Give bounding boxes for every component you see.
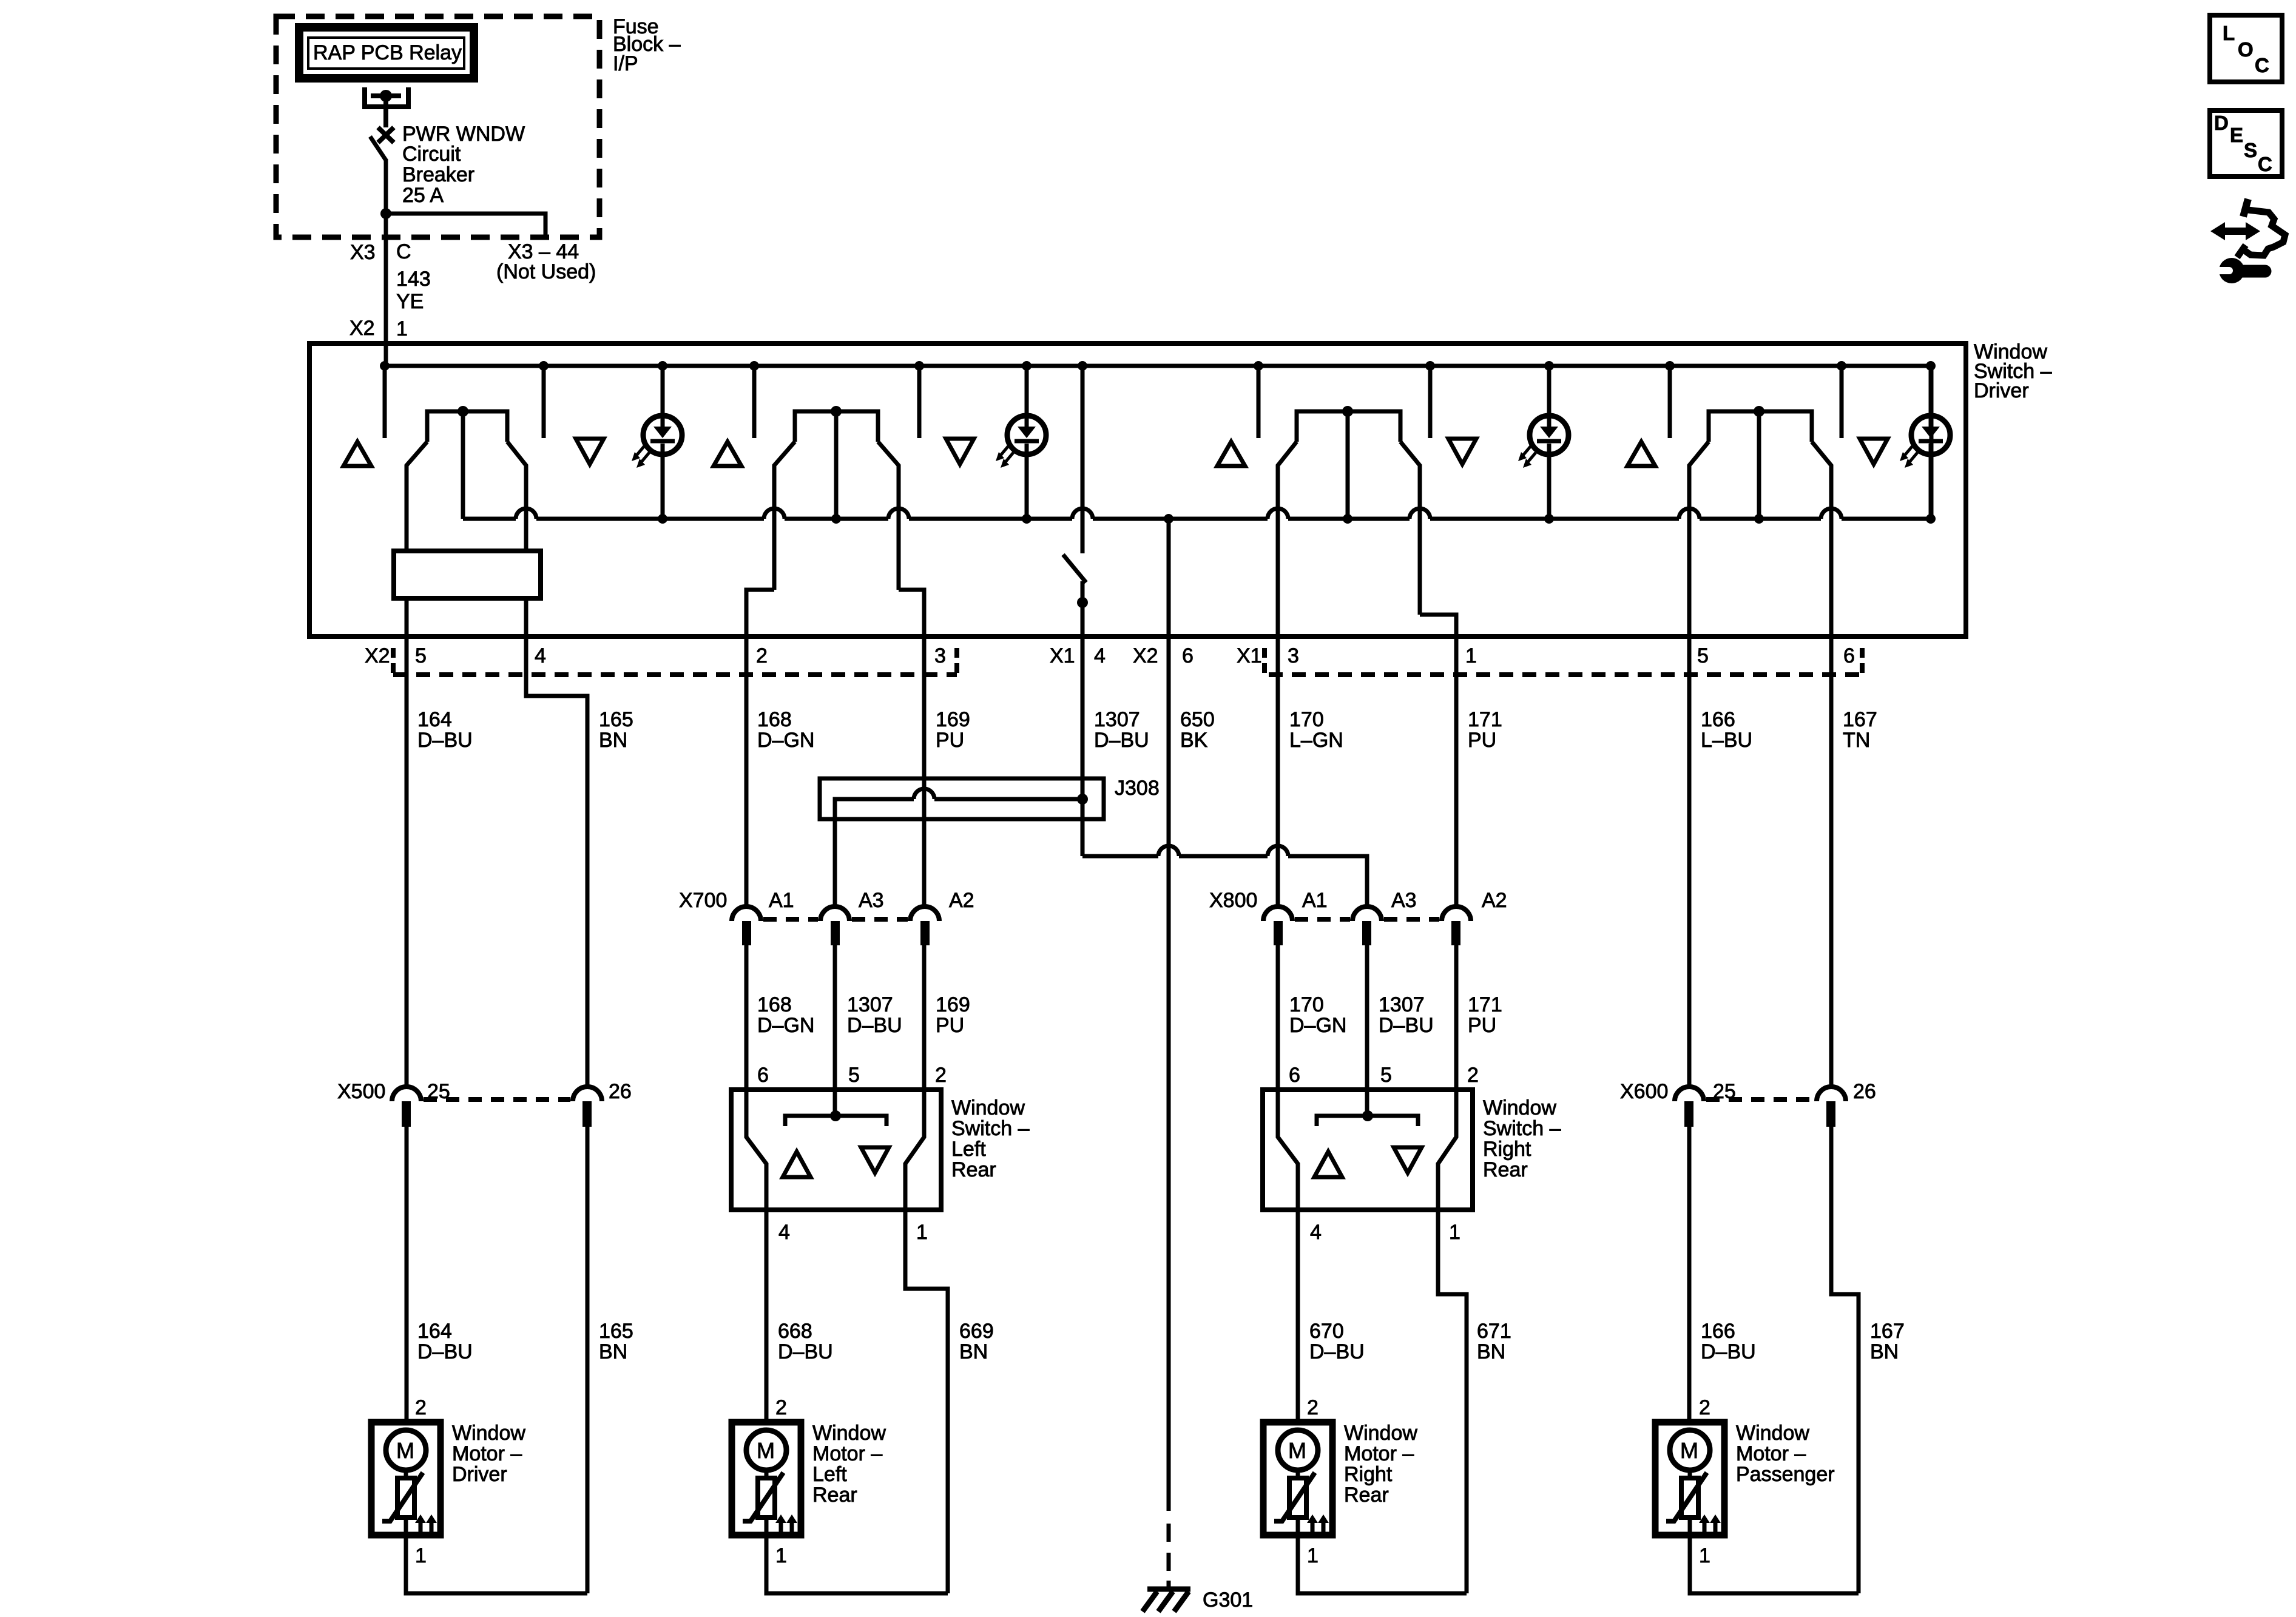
node: supply entry — [380, 361, 390, 371]
wire branch to X3-44 (not used) — [386, 214, 545, 236]
wire 166 to passenger motor — [1687, 1127, 1692, 1422]
svg-text:Passenger: Passenger — [1736, 1463, 1835, 1486]
wire top bus corner to LED4 — [1930, 366, 1934, 519]
connector X800 female halves — [1263, 906, 1471, 921]
svg-text:Rear: Rear — [1344, 1484, 1389, 1507]
pin labels 4 1 below — [1310, 1221, 1460, 1244]
pin labels 6 5 2 on top — [1289, 1064, 1479, 1087]
svg-text:BN: BN — [1870, 1340, 1899, 1363]
svg-text:650: 650 — [1180, 708, 1215, 731]
wire 650 dashed tail to ground — [1167, 1524, 1171, 1588]
icon double arrow — [2210, 222, 2260, 240]
motor M circle — [386, 1430, 426, 1470]
connector X600 dashed — [1706, 1097, 1814, 1102]
svg-text:3: 3 — [1288, 644, 1299, 667]
switch name — [951, 1096, 1030, 1181]
svg-text:168: 168 — [757, 993, 792, 1016]
svg-text:Breaker: Breaker — [402, 163, 474, 186]
wire 668 D-BU to left rear motor — [765, 1210, 769, 1422]
splice J308 bar with hop over 169 — [835, 799, 1082, 906]
down triangle — [861, 1147, 889, 1173]
svg-text:6: 6 — [1289, 1064, 1300, 1087]
svg-text:M: M — [396, 1438, 414, 1463]
svg-text:BK: BK — [1180, 729, 1208, 752]
rocker yoke bar — [1317, 1110, 1418, 1126]
svg-text:26: 26 — [609, 1080, 632, 1103]
driver lockout block — [394, 551, 541, 598]
up triangle — [783, 1152, 811, 1177]
svg-text:D: D — [2214, 112, 2229, 134]
icon DESC box — [2210, 110, 2282, 177]
svg-text:165: 165 — [599, 708, 633, 731]
svg-text:X2: X2 — [349, 317, 375, 340]
circuit breaker CB (PWR WNDW 25A) — [370, 127, 394, 214]
svg-text:A1: A1 — [769, 889, 794, 912]
svg-text:3: 3 — [934, 644, 946, 667]
up triangle — [714, 442, 741, 466]
svg-text:Window: Window — [812, 1422, 886, 1445]
svg-text:C: C — [2258, 153, 2272, 175]
svg-text:Driver: Driver — [452, 1463, 507, 1486]
wire S2 left leg jog to pin 2 — [746, 590, 774, 636]
svg-text:S: S — [2244, 139, 2257, 161]
svg-text:1: 1 — [415, 1544, 427, 1567]
rocker yoke bar — [785, 1110, 886, 1126]
svg-text:4: 4 — [535, 644, 546, 667]
svg-text:Motor –: Motor – — [1736, 1442, 1806, 1465]
svg-text:L–GN: L–GN — [1289, 729, 1343, 752]
wire label 143 YE — [396, 268, 431, 313]
svg-text:D–BU: D–BU — [1309, 1340, 1365, 1363]
connector X600 male pins — [1684, 1101, 1835, 1127]
down triangle — [1448, 439, 1476, 464]
svg-text:X2: X2 — [1133, 644, 1158, 667]
wire label 169 PU — [936, 708, 970, 752]
svg-text:1: 1 — [1449, 1221, 1460, 1244]
switch name — [1483, 1096, 1561, 1181]
svg-text:1: 1 — [1699, 1544, 1710, 1567]
wire label 170 L-GN — [1289, 708, 1343, 752]
down triangle (driver) — [576, 439, 604, 464]
svg-text:PU: PU — [936, 1014, 964, 1037]
svg-text:4: 4 — [778, 1221, 790, 1244]
wire 1307 below X800 to right rear switch pin 5 — [1365, 945, 1369, 1116]
dual up arrows — [1307, 1514, 1329, 1533]
wire 650 BK down to ground — [1167, 636, 1171, 1511]
svg-text:RAP PCB Relay: RAP PCB Relay — [313, 41, 462, 64]
svg-text:PU: PU — [1468, 729, 1496, 752]
svg-text:Window: Window — [1483, 1096, 1556, 1119]
svg-text:169: 169 — [936, 708, 970, 731]
svg-text:2: 2 — [1307, 1396, 1319, 1419]
wire hops on common bus — [516, 508, 1842, 519]
label X3-44 not used — [496, 240, 596, 283]
svg-text:Window: Window — [452, 1422, 525, 1445]
svg-text:D–BU: D–BU — [1094, 729, 1149, 752]
wire 171 below X800 to right rear switch pin 2 — [1454, 945, 1459, 1090]
svg-text:BN: BN — [959, 1340, 988, 1363]
wire: supply bus (top) inside switch — [385, 364, 1931, 368]
connector label X3 pin C — [350, 240, 411, 264]
motor name — [452, 1422, 525, 1486]
svg-text:171: 171 — [1468, 993, 1502, 1016]
svg-text:X1: X1 — [1237, 644, 1262, 667]
svg-text:D–GN: D–GN — [1289, 1014, 1346, 1037]
wire: common bus (lower) inside switch, with hops — [463, 517, 1931, 521]
svg-text:6: 6 — [1182, 644, 1194, 667]
svg-text:PU: PU — [936, 729, 964, 752]
svg-text:166: 166 — [1701, 1320, 1735, 1343]
svg-text:164: 164 — [417, 708, 452, 731]
svg-text:2: 2 — [415, 1396, 427, 1419]
svg-text:X3: X3 — [350, 241, 376, 264]
internal wire right (pin2 to pin1) — [905, 1090, 924, 1210]
svg-text:166: 166 — [1701, 708, 1735, 731]
fuse block label — [613, 15, 681, 75]
svg-text:X700: X700 — [679, 889, 727, 912]
wire label 650 BK — [1180, 708, 1215, 752]
svg-text:BN: BN — [599, 729, 627, 752]
svg-text:669: 669 — [959, 1320, 994, 1343]
wire 168 below X700 to left rear switch pin 6 — [745, 945, 749, 1090]
connector X600 row — [1620, 1080, 1876, 1103]
svg-text:D–BU: D–BU — [417, 1340, 473, 1363]
connector X500 female halves — [392, 1087, 602, 1101]
svg-text:6: 6 — [757, 1064, 769, 1087]
label Window Switch - Driver — [1974, 340, 2052, 402]
svg-text:Motor –: Motor – — [812, 1442, 882, 1465]
connector X800 row — [1209, 889, 1507, 912]
circuit breaker label — [402, 123, 525, 207]
svg-text:1: 1 — [916, 1221, 928, 1244]
svg-text:(Not Used): (Not Used) — [496, 260, 596, 283]
connector X500 row — [337, 1080, 632, 1103]
svg-text:1: 1 — [1465, 644, 1477, 667]
svg-text:170: 170 — [1289, 708, 1324, 731]
down triangle — [946, 439, 974, 464]
switch down contact — [1428, 366, 1433, 438]
connector X800 male pins — [1274, 921, 1460, 945]
icon pointing hand outline — [2237, 199, 2285, 257]
connector dashed lines X2 / X1 — [393, 672, 957, 677]
wire 168 D-GN: pin2 to X700-A1 — [745, 636, 749, 906]
svg-text:M: M — [1288, 1438, 1306, 1463]
svg-text:J308: J308 — [1115, 777, 1160, 800]
svg-text:PU: PU — [1468, 1014, 1496, 1037]
svg-text:G301: G301 — [1203, 1588, 1253, 1612]
svg-text:143: 143 — [396, 268, 431, 291]
svg-text:BN: BN — [1477, 1340, 1505, 1363]
svg-text:Switch –: Switch – — [951, 1117, 1030, 1140]
switch down contact — [1840, 366, 1844, 438]
rear window switch box — [731, 1090, 941, 1210]
wire pin5 from lock block — [405, 598, 409, 636]
svg-text:167: 167 — [1843, 708, 1877, 731]
svg-text:Window: Window — [1344, 1422, 1417, 1445]
wire motor internal — [765, 1470, 769, 1535]
svg-text:C: C — [2255, 54, 2269, 76]
connector X500 dashed — [424, 1097, 570, 1102]
svg-text:26: 26 — [1853, 1080, 1876, 1103]
switch up contact — [752, 366, 757, 438]
svg-text:L: L — [2223, 22, 2235, 44]
svg-text:Left: Left — [951, 1138, 986, 1161]
wire 1307 below X700 to left rear switch pin 5 — [833, 945, 837, 1116]
svg-text:171: 171 — [1468, 708, 1502, 731]
pin labels 4 1 below — [778, 1221, 928, 1244]
svg-text:Driver: Driver — [1974, 379, 2029, 402]
up triangle — [1627, 442, 1655, 466]
svg-text:X1: X1 — [1050, 644, 1075, 667]
wire 169 below X700 to left rear switch pin 2 — [922, 945, 927, 1090]
svg-text:4: 4 — [1094, 644, 1106, 667]
svg-text:M: M — [1680, 1438, 1698, 1463]
PTC thermistor — [1666, 1473, 1707, 1521]
wire labels below X800 — [1289, 993, 1346, 1037]
switch S1 down contact — [542, 366, 546, 438]
wire 650 BK drop from common bus — [1167, 519, 1171, 636]
wire 164 D-BU: master pin5 to X500-25 — [405, 636, 409, 1087]
svg-text:4: 4 — [1310, 1221, 1322, 1244]
wire motor return loop — [766, 1535, 948, 1593]
connector X500 male pins — [402, 1101, 592, 1127]
wire motor return loop — [1298, 1535, 1467, 1593]
dual up arrows — [415, 1514, 437, 1533]
svg-text:O: O — [2238, 38, 2254, 61]
LED window switch illumination — [632, 361, 682, 524]
wire label 1307 D-BU — [1094, 708, 1149, 752]
motor M circle — [746, 1430, 786, 1470]
lockout switch (window lock) — [1063, 361, 1088, 636]
svg-text:Motor –: Motor – — [1344, 1442, 1414, 1465]
svg-text:Circuit: Circuit — [402, 143, 461, 166]
svg-text:A3: A3 — [1391, 889, 1417, 912]
svg-text:6: 6 — [1843, 644, 1855, 667]
wire motor internal — [1296, 1470, 1300, 1535]
svg-text:D–BU: D–BU — [1701, 1340, 1756, 1363]
connector X600 female halves — [1675, 1087, 1846, 1101]
dual up arrows — [775, 1514, 797, 1533]
wire 171 PU: pin1 to X800-A2 — [1454, 636, 1459, 906]
wire 1307 D-BU from lockout pin X1-4 down through J308 — [1081, 636, 1085, 856]
wire 143 YE from breaker to window switch — [384, 214, 388, 366]
wire 1307 branch to X800-A3 with hops over 650 and 170 — [1082, 856, 1367, 906]
svg-text:5: 5 — [415, 644, 427, 667]
svg-text:170: 170 — [1289, 993, 1324, 1016]
svg-text:168: 168 — [757, 708, 792, 731]
wire motor internal — [1688, 1470, 1692, 1535]
svg-text:D–BU: D–BU — [1379, 1014, 1434, 1037]
svg-text:1: 1 — [396, 317, 408, 340]
connector X700 male pins — [742, 921, 930, 945]
svg-text:1: 1 — [775, 1544, 787, 1567]
LED window switch illumination — [1900, 361, 1950, 524]
icon wrench — [2212, 258, 2265, 283]
wire 166 L-BU: pin5 to X600-25 — [1687, 636, 1692, 1087]
switch down contact — [917, 366, 922, 438]
svg-text:A2: A2 — [1482, 889, 1507, 912]
svg-text:Rear: Rear — [951, 1158, 996, 1181]
window motor box — [732, 1422, 801, 1535]
internal wire left (pin6 to pin4) — [1278, 1090, 1298, 1210]
wire 170 below X800 to right rear switch pin 6 — [1276, 945, 1280, 1090]
svg-text:L–BU: L–BU — [1701, 729, 1752, 752]
svg-text:1: 1 — [1307, 1544, 1319, 1567]
svg-text:5: 5 — [1697, 644, 1709, 667]
splice J308 box — [820, 778, 1104, 819]
svg-text:2: 2 — [1699, 1396, 1710, 1419]
fuse block I/P dashed boundary — [276, 16, 599, 237]
svg-text:D–GN: D–GN — [757, 1014, 814, 1037]
wire label 164 D-BU — [417, 708, 473, 752]
svg-text:Window: Window — [1736, 1422, 1809, 1445]
wire 167 TN: pin6 to X600-26 — [1829, 636, 1834, 1087]
svg-text:Window: Window — [951, 1096, 1025, 1119]
svg-text:M: M — [757, 1438, 775, 1463]
switch rocker — [1278, 406, 1420, 636]
icon LOC box — [2210, 15, 2282, 82]
wire pin4 from lock block — [524, 598, 528, 636]
svg-text:A2: A2 — [949, 889, 974, 912]
wire labels below X700 — [757, 993, 814, 1037]
dual up arrows — [1699, 1514, 1721, 1533]
wire label 167 TN — [1843, 708, 1877, 752]
wire label 168 D-GN — [757, 708, 814, 752]
svg-text:X600: X600 — [1620, 1080, 1668, 1103]
LED window switch illumination — [1518, 361, 1568, 524]
connector X700 row — [679, 889, 974, 912]
svg-text:Rear: Rear — [1483, 1158, 1528, 1181]
svg-text:D–GN: D–GN — [757, 729, 814, 752]
svg-text:671: 671 — [1477, 1320, 1511, 1343]
switch S1 up contact (driver) — [383, 366, 387, 438]
svg-text:169: 169 — [936, 993, 970, 1016]
svg-text:1307: 1307 — [1094, 708, 1140, 731]
connector label X2 pin 1 — [349, 317, 408, 340]
wire 164 to driver motor — [405, 1127, 409, 1422]
switch up contact — [1257, 366, 1261, 438]
LED window switch illumination — [996, 361, 1046, 524]
svg-text:X800: X800 — [1209, 889, 1257, 912]
motor name — [812, 1422, 886, 1507]
wire 167 down, jog right, to passenger motor loop — [1831, 1127, 1859, 1593]
svg-text:Right: Right — [1344, 1463, 1393, 1486]
svg-text:C: C — [396, 240, 411, 263]
svg-text:5: 5 — [848, 1064, 860, 1087]
up triangle — [1314, 1152, 1342, 1177]
wire label 171 PU — [1468, 708, 1502, 752]
svg-text:5: 5 — [1380, 1064, 1392, 1087]
switch rocker — [774, 406, 899, 590]
svg-text:Left: Left — [812, 1463, 847, 1486]
switch up contact — [1668, 366, 1672, 438]
motor M circle — [1278, 1430, 1318, 1470]
node: splice joint — [1077, 794, 1088, 805]
connector X700 female halves — [732, 906, 939, 921]
svg-text:YE: YE — [396, 290, 424, 313]
wire 169 PU: pin3 to X700-A2 (through J308 box) — [922, 636, 927, 906]
up triangle — [1217, 442, 1245, 466]
wire S3 right leg jog to pin 1 — [1420, 615, 1456, 636]
down triangle — [1860, 439, 1888, 464]
motor name — [1736, 1422, 1835, 1486]
svg-text:A3: A3 — [859, 889, 884, 912]
svg-text:2: 2 — [775, 1396, 787, 1419]
svg-text:X500: X500 — [337, 1080, 385, 1103]
PTC thermistor — [743, 1473, 783, 1521]
window motor box — [1263, 1422, 1332, 1535]
svg-text:668: 668 — [778, 1320, 812, 1343]
window motor box — [1655, 1422, 1724, 1535]
wire label 165 BN — [599, 708, 633, 752]
svg-text:D–BU: D–BU — [417, 729, 473, 752]
internal wire right (pin2 to pin1) — [1438, 1090, 1456, 1210]
wire relay to circuit breaker — [383, 109, 388, 127]
motor M circle — [1670, 1430, 1710, 1470]
wire S2 right leg jog to pin 3 — [899, 590, 924, 636]
motor name — [1344, 1422, 1417, 1507]
Window Switch - Driver outline box — [309, 343, 1966, 636]
svg-text:Switch –: Switch – — [1483, 1117, 1561, 1140]
wire 165 down to driver motor loop — [586, 1127, 590, 1593]
PTC thermistor — [1274, 1473, 1315, 1521]
svg-text:E: E — [2230, 124, 2243, 146]
svg-text:TN: TN — [1843, 729, 1870, 752]
ground G301 — [1143, 1589, 1190, 1612]
relay contact symbol — [365, 87, 408, 109]
svg-text:Rear: Rear — [812, 1484, 857, 1507]
svg-text:A1: A1 — [1302, 889, 1328, 912]
svg-text:D–BU: D–BU — [778, 1340, 833, 1363]
wire 670 D-BU to right rear motor — [1296, 1210, 1300, 1422]
wire motor return loop — [1690, 1535, 1859, 1593]
pin labels 6 5 2 on top — [757, 1064, 947, 1087]
svg-text:2: 2 — [935, 1064, 947, 1087]
internal wire left (pin6 to pin4) — [746, 1090, 766, 1210]
rear window switch box — [1263, 1090, 1473, 1210]
relay K (RAP PCB Relay) name box — [299, 27, 474, 78]
down triangle — [1394, 1147, 1422, 1173]
wire label 166 L-BU — [1701, 708, 1752, 752]
svg-text:670: 670 — [1309, 1320, 1344, 1343]
connector X700 dashed — [763, 917, 908, 922]
PTC thermistor — [382, 1473, 423, 1521]
connector row under master switch: pin labels — [365, 644, 1855, 667]
wire 170 L-GN: pin X1-3 to X800-A1 — [1276, 636, 1280, 906]
node: breaker output junction — [380, 208, 391, 219]
wire motor return loop — [406, 1535, 587, 1593]
svg-text:167: 167 — [1870, 1320, 1905, 1343]
svg-text:25 A: 25 A — [402, 184, 444, 207]
svg-text:165: 165 — [599, 1320, 633, 1343]
svg-text:BN: BN — [599, 1340, 627, 1363]
wire 671 BN from right rear switch pin 1 — [1438, 1210, 1467, 1593]
svg-text:X2: X2 — [365, 644, 390, 667]
svg-text:Motor –: Motor – — [452, 1442, 522, 1465]
svg-text:I/P: I/P — [613, 52, 638, 75]
svg-text:Right: Right — [1483, 1138, 1531, 1161]
svg-text:164: 164 — [417, 1320, 452, 1343]
svg-text:2: 2 — [1467, 1064, 1479, 1087]
wire 165 BN: master pin4 jog right, down to X500-26 — [526, 636, 587, 1087]
svg-text:D–BU: D–BU — [847, 1014, 902, 1037]
svg-text:2: 2 — [756, 644, 768, 667]
svg-text:1307: 1307 — [847, 993, 893, 1016]
svg-text:1307: 1307 — [1379, 993, 1425, 1016]
window motor box — [371, 1422, 441, 1535]
connector X800 dashed — [1295, 917, 1439, 922]
connector boundary tick marks — [393, 648, 1862, 673]
